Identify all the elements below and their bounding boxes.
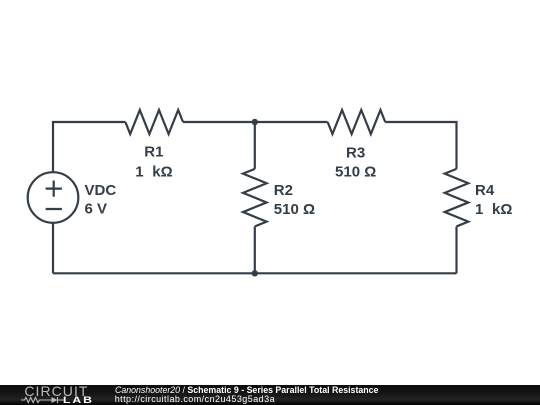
wire bottom rail bbox=[53, 272, 457, 274]
CircuitLab logo zigzag and diode bbox=[21, 396, 64, 404]
voltage source plus sign bbox=[46, 181, 62, 197]
svg-text:6 V: 6 V bbox=[85, 200, 108, 217]
node A junction dot bbox=[252, 119, 258, 125]
svg-text:R4: R4 bbox=[475, 182, 495, 199]
CircuitLab logo wordmark CIRCUIT bbox=[24, 384, 88, 398]
CircuitLab logo wordmark LAB bbox=[63, 396, 94, 404]
resistor R3 bbox=[328, 110, 386, 134]
svg-text:R3: R3 bbox=[346, 145, 365, 162]
wire R2 bottom to node B bbox=[254, 226, 256, 273]
wire R1 right to node A bbox=[183, 121, 255, 123]
voltage source V1 circle bbox=[28, 172, 79, 223]
resistor R1 bbox=[125, 110, 183, 134]
voltage source minus sign bbox=[46, 208, 62, 210]
svg-text:R1: R1 bbox=[144, 144, 163, 161]
svg-text:1 kΩ: 1 kΩ bbox=[135, 164, 172, 181]
node B junction dot bbox=[252, 270, 258, 276]
svg-text:510 Ω: 510 Ω bbox=[335, 164, 376, 181]
svg-text:1 kΩ: 1 kΩ bbox=[475, 201, 512, 218]
wire R3 right to top-right corner bbox=[385, 122, 456, 169]
svg-text:VDC: VDC bbox=[85, 182, 117, 199]
wire node A down to R2 top bbox=[254, 122, 256, 169]
wire R4 bottom to bottom-right corner bbox=[455, 226, 457, 273]
footer bar bbox=[0, 385, 540, 405]
resistor R4 bbox=[445, 169, 469, 227]
svg-text:R2: R2 bbox=[274, 182, 293, 199]
svg-text:510 Ω: 510 Ω bbox=[274, 201, 315, 218]
wire source bottom to bottom-left corner bbox=[52, 223, 54, 274]
footer title line bbox=[115, 385, 378, 395]
wire top-left (source top to R1 left) bbox=[53, 122, 125, 173]
wire node A to R3 left bbox=[255, 121, 328, 123]
footer url line bbox=[115, 394, 275, 404]
resistor R2 bbox=[243, 169, 267, 227]
